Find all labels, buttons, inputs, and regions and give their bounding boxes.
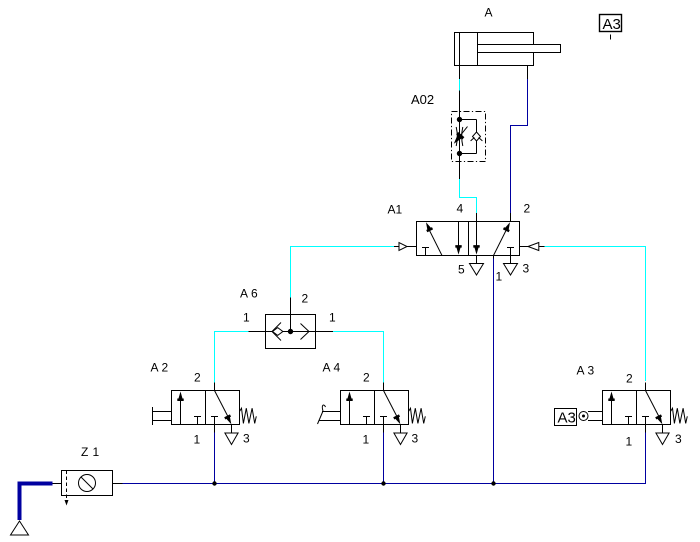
junction dot at A4 drop bbox=[381, 481, 385, 485]
5/2 way valve A1 bbox=[417, 213, 520, 256]
svg-text:3: 3 bbox=[243, 432, 250, 446]
svg-text:A3: A3 bbox=[603, 16, 621, 33]
svg-text:A: A bbox=[388, 203, 396, 217]
svg-text:2: 2 bbox=[363, 371, 370, 385]
A1 left pilot bbox=[394, 243, 417, 251]
svg-text:3: 3 bbox=[523, 262, 530, 276]
svg-text:1: 1 bbox=[93, 445, 100, 459]
svg-text:A3: A3 bbox=[558, 410, 576, 427]
svg-text:Z: Z bbox=[81, 445, 88, 459]
svg-text:A: A bbox=[323, 361, 331, 375]
wire A4 port 1 drop bbox=[383, 433, 385, 484]
svg-text:4: 4 bbox=[334, 361, 341, 375]
junction dot at A1 drop bbox=[491, 481, 495, 485]
svg-text:1: 1 bbox=[329, 311, 336, 325]
A1 port 5 exhaust bbox=[470, 256, 484, 276]
main air bus (blue) bbox=[123, 433, 646, 484]
supply line (thick blue) bbox=[20, 484, 53, 521]
svg-text:2: 2 bbox=[626, 372, 633, 386]
svg-text:3: 3 bbox=[588, 364, 595, 378]
compressed air source bbox=[11, 521, 29, 535]
svg-text:1: 1 bbox=[496, 270, 503, 284]
svg-text:A: A bbox=[485, 6, 493, 20]
wire cylinder right port to A1 port 2 (blue) bbox=[511, 79, 528, 213]
3/2 valve A4 bbox=[318, 383, 426, 445]
junction dot at A2 drop bbox=[212, 481, 216, 485]
A1 port 1 stub bbox=[493, 256, 495, 259]
svg-text:3: 3 bbox=[675, 432, 682, 446]
svg-text:1: 1 bbox=[626, 435, 633, 449]
3/2 valve A2 bbox=[153, 383, 257, 445]
svg-text:5: 5 bbox=[458, 263, 465, 277]
svg-text:1: 1 bbox=[243, 311, 250, 325]
wire A2 port 1 drop bbox=[214, 433, 216, 484]
svg-text:6: 6 bbox=[251, 287, 258, 301]
wire A6 left port to A2 port 2 (cyan) bbox=[215, 332, 249, 383]
wire A02 to A1 port 4 (cyan) bbox=[460, 179, 477, 213]
svg-text:3: 3 bbox=[412, 432, 419, 446]
throttle check valve A02 bbox=[451, 91, 486, 180]
3/2 valve A3 with roller bbox=[555, 383, 688, 445]
svg-text:2: 2 bbox=[194, 371, 201, 385]
wire A1 port 1 drop bbox=[493, 259, 495, 484]
A1 right pilot bbox=[520, 243, 545, 251]
shuttle valve A6 bbox=[249, 298, 334, 349]
wire cylinder left port to A02 (cyan) bbox=[459, 79, 461, 91]
svg-text:2: 2 bbox=[162, 361, 169, 375]
svg-text:A: A bbox=[577, 364, 585, 378]
svg-text:2: 2 bbox=[302, 292, 309, 306]
cylinder A bbox=[455, 33, 561, 80]
svg-text:A: A bbox=[240, 287, 248, 301]
svg-text:1: 1 bbox=[194, 433, 201, 447]
svg-text:1: 1 bbox=[363, 433, 370, 447]
wire A1 left pilot to A6 port 2 (cyan) bbox=[291, 247, 395, 298]
svg-text:1: 1 bbox=[396, 203, 403, 217]
wire A1 right pilot to A3 port 2 (cyan) bbox=[545, 247, 646, 382]
svg-text:4: 4 bbox=[457, 202, 464, 216]
svg-text:2: 2 bbox=[524, 202, 531, 216]
svg-text:A: A bbox=[151, 361, 159, 375]
A1 port 3 exhaust bbox=[504, 256, 518, 276]
svg-text:A02: A02 bbox=[411, 92, 434, 107]
marker box A3 (top right) bbox=[600, 15, 622, 40]
wire A6 right port to A4 port 2 (cyan) bbox=[333, 332, 384, 383]
air service unit Z1 bbox=[53, 471, 123, 506]
